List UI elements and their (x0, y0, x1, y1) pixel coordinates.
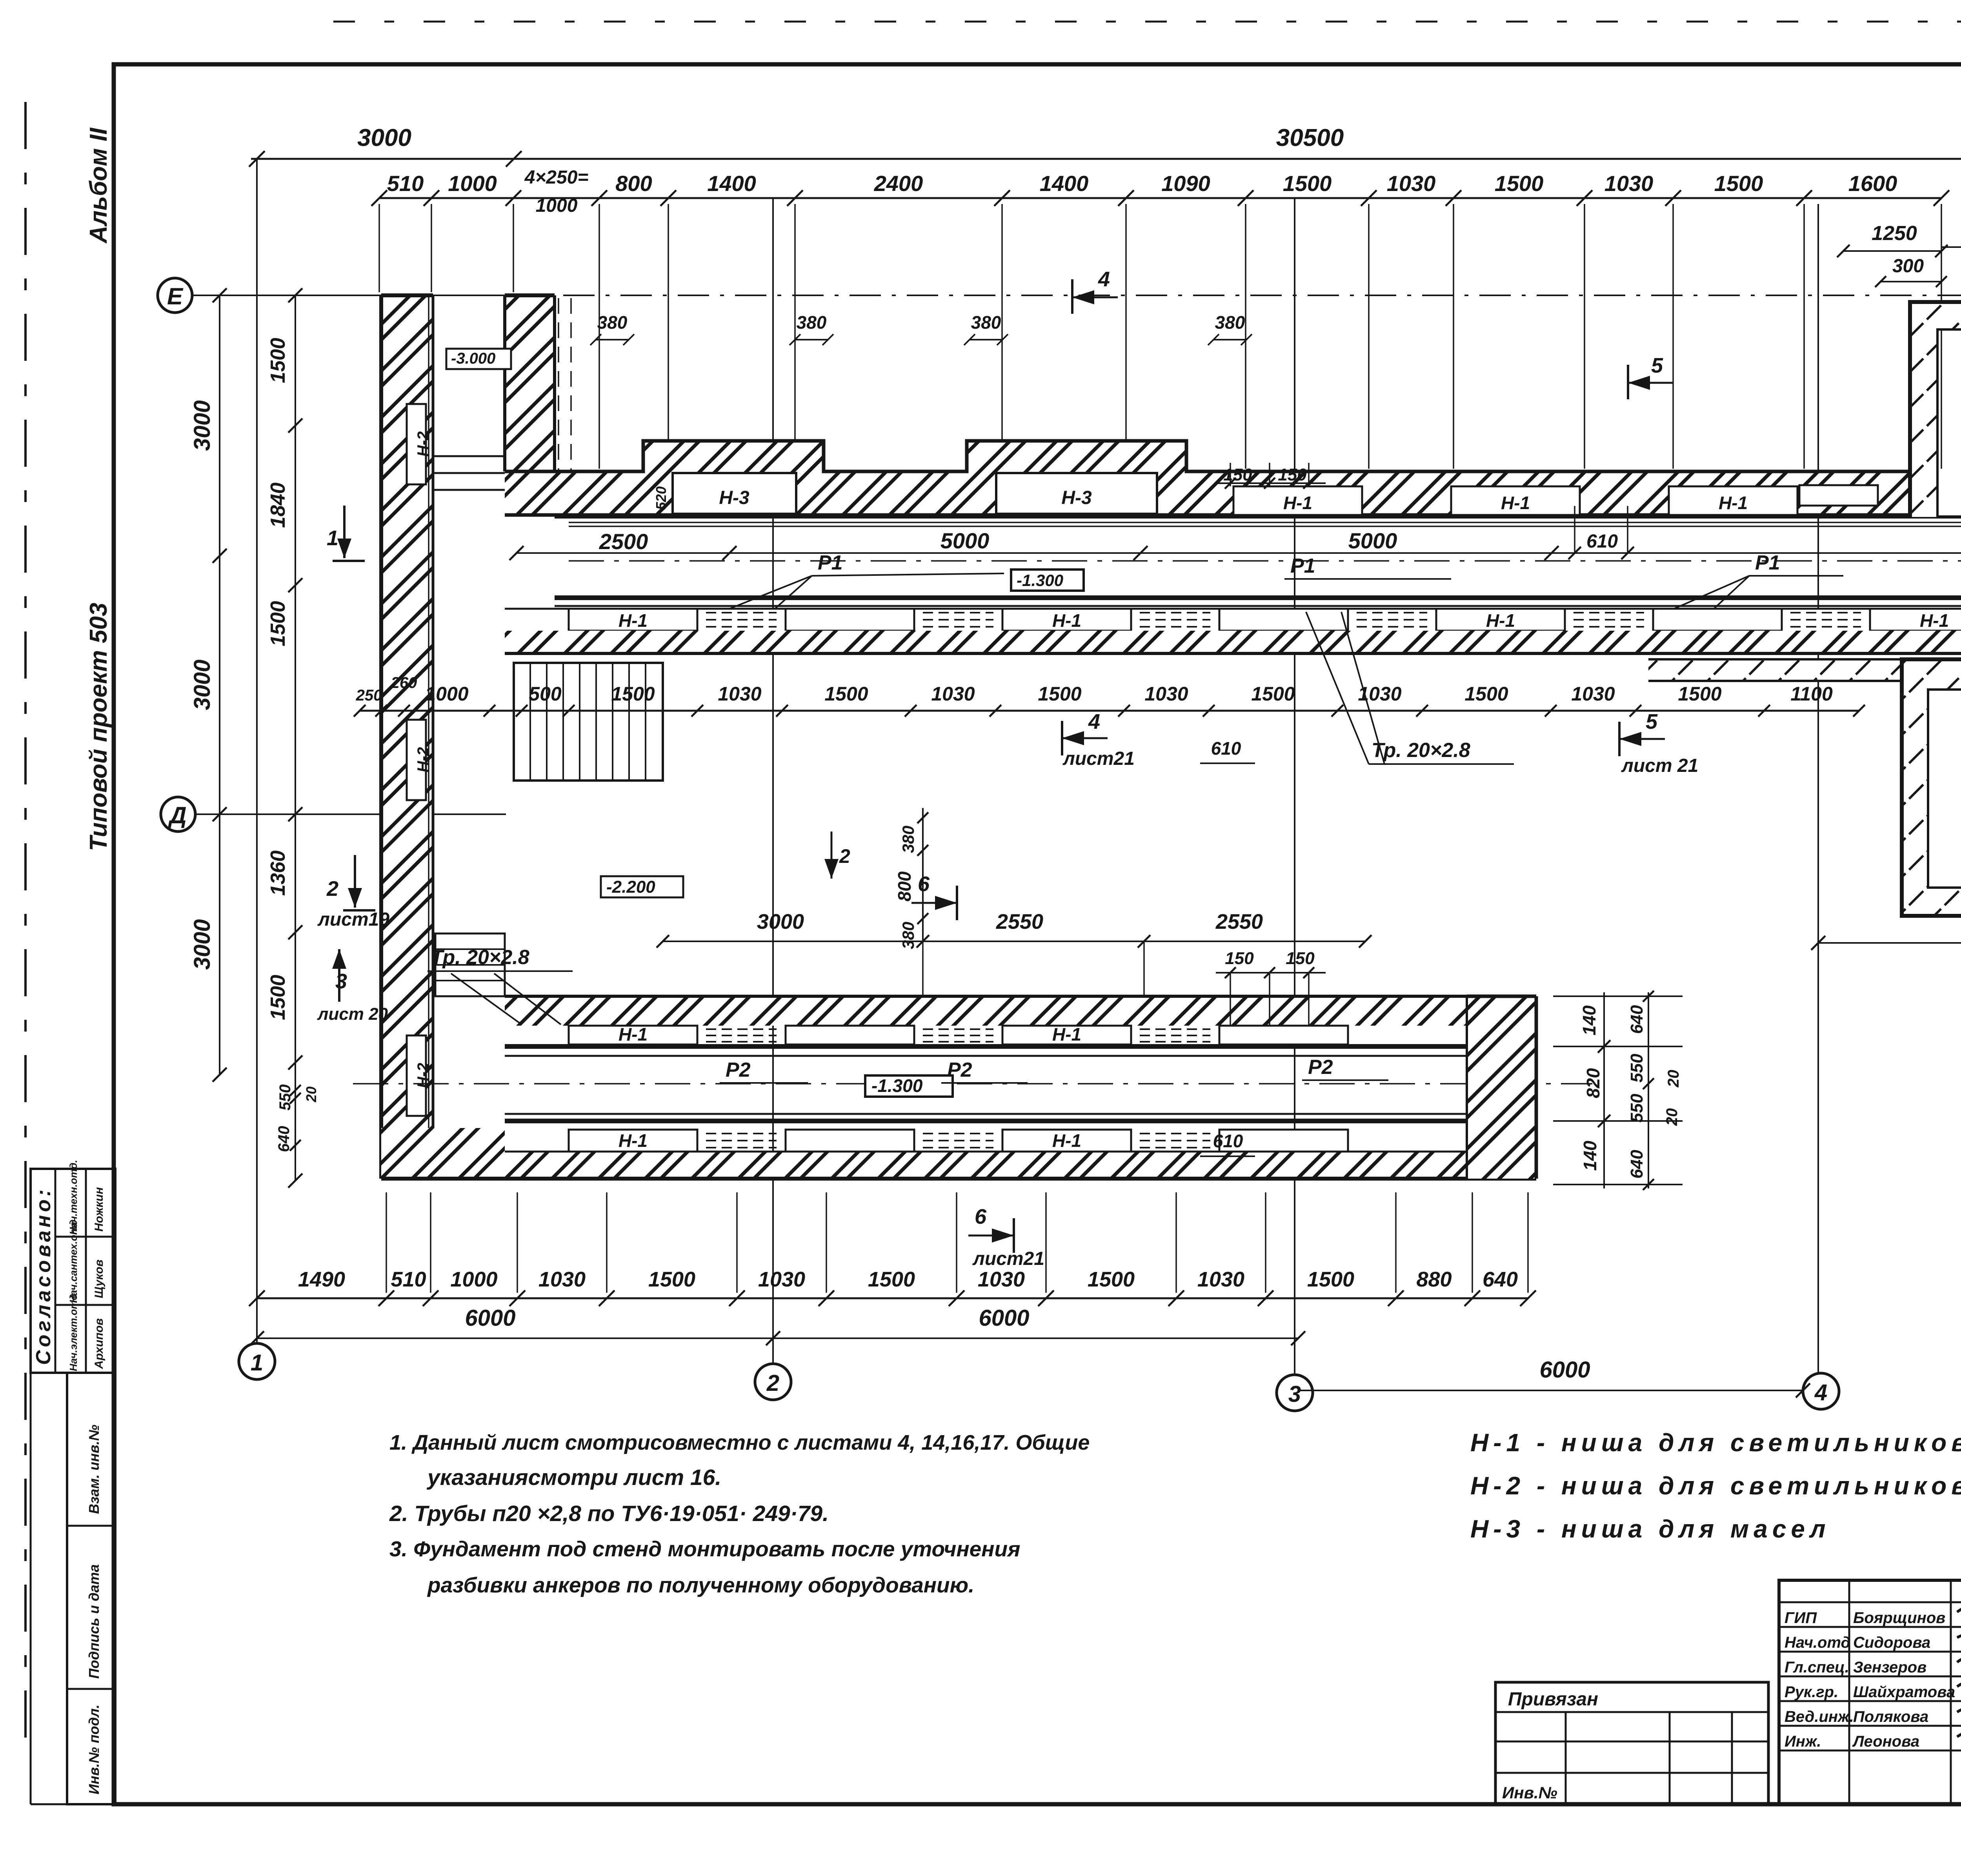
bottom 6000 chain (257, 1337, 1298, 1339)
outer left chain 3000s (219, 295, 220, 1075)
svg-text:1500: 1500 (1678, 683, 1721, 705)
corridor ladder (433, 455, 505, 457)
svg-text:30500: 30500 (1276, 124, 1344, 151)
svg-text:380: 380 (899, 826, 917, 853)
svg-text:3. Фундамент под стенд м: 3. Фундамент под стенд монтировать после… (389, 1537, 1020, 1561)
svg-text:2500: 2500 (599, 529, 648, 554)
left margin dashed line (24, 102, 27, 1749)
svg-text:Н-2: Н-2 (415, 431, 432, 457)
svg-text:4: 4 (1098, 267, 1110, 291)
svg-text:5000: 5000 (940, 528, 990, 553)
top chain segments (379, 197, 1941, 199)
privyazan block (1495, 1682, 1768, 1804)
svg-text:380: 380 (971, 312, 1001, 333)
svg-text:150: 150 (1223, 465, 1252, 484)
610 sub-dim (1568, 547, 1581, 559)
niche row on band2 (505, 609, 1961, 631)
top chain 3000 / 30500 (251, 158, 1961, 160)
svg-text:1500: 1500 (824, 683, 868, 705)
svg-text:Инж.: Инж. (1785, 1733, 1821, 1750)
svg-text:380: 380 (797, 312, 827, 333)
svg-text:ГИП: ГИП (1785, 1609, 1817, 1627)
svg-text:1500: 1500 (648, 1268, 695, 1291)
svg-text:1500: 1500 (1307, 1268, 1354, 1291)
svg-text:1500: 1500 (1495, 171, 1544, 196)
svg-text:140: 140 (1579, 1005, 1599, 1035)
svg-text:1500: 1500 (267, 338, 289, 383)
svg-text:550: 550 (1627, 1094, 1646, 1123)
svg-text:640: 640 (275, 1126, 293, 1152)
svg-text:150: 150 (1225, 949, 1254, 968)
svg-text:-1.300: -1.300 (871, 1075, 923, 1096)
band2 hatch (505, 631, 1961, 653)
svg-text:1840: 1840 (267, 482, 289, 528)
svg-text:1. Данный лист смотрисовмест: 1. Данный лист смотрисовместно с листами… (389, 1431, 1090, 1454)
svg-text:5: 5 (1646, 710, 1658, 733)
svg-text:Нач.сантех.отд: Нач.сантех.отд (67, 1219, 79, 1303)
svg-text:640: 640 (1627, 1150, 1646, 1179)
svg-text:1030: 1030 (1571, 683, 1615, 705)
svg-text:2: 2 (766, 1370, 779, 1396)
svg-text:Д: Д (167, 802, 186, 828)
level box -1.300 lower (865, 1075, 953, 1097)
svg-text:Привязан: Привязан (1508, 1689, 1598, 1710)
svg-text:Н-3: Н-3 (719, 488, 749, 508)
south wall band (381, 1152, 1536, 1179)
svg-text:Вед.инж.: Вед.инж. (1785, 1708, 1854, 1725)
svg-text:Н-1: Н-1 (1920, 610, 1949, 631)
svg-text:380: 380 (899, 922, 917, 949)
svg-text:Н-1: Н-1 (618, 1130, 648, 1151)
svg-text:1030: 1030 (1144, 683, 1188, 705)
svg-text:Шайхратова: Шайхратова (1853, 1683, 1955, 1701)
svg-text:640: 640 (1627, 1005, 1646, 1034)
svg-text:1030: 1030 (1197, 1268, 1244, 1291)
svg-text:150: 150 (1278, 465, 1307, 484)
svg-text:380: 380 (1215, 312, 1245, 333)
svg-text:Н-1: Н-1 (1052, 1130, 1081, 1151)
svg-text:3000: 3000 (757, 910, 804, 933)
svg-text:Н-1: Н-1 (1486, 610, 1515, 631)
pit 1 foundation (brake stand) (1910, 302, 1961, 329)
sidebar lower table (67, 1373, 115, 1804)
6000 between 4 and 5 (1818, 942, 1961, 944)
svg-text:Н-1: Н-1 (1052, 610, 1081, 631)
svg-text:1400: 1400 (707, 171, 756, 196)
svg-text:500: 500 (529, 683, 562, 705)
section mark 6 lower (1013, 1218, 1015, 1253)
svg-text:20: 20 (1665, 1070, 1682, 1088)
axis Д (161, 797, 195, 832)
svg-text:Взам. инв.№: Взам. инв.№ (86, 1425, 102, 1514)
niche row south (569, 1130, 697, 1152)
svg-text:Полякова: Полякова (1853, 1708, 1928, 1725)
svg-text:Подпись и дата: Подпись и дата (86, 1564, 102, 1679)
svg-text:1500: 1500 (1251, 683, 1295, 705)
svg-text:P1: P1 (1290, 555, 1315, 577)
section mark 5 mid (1618, 722, 1621, 756)
west wall hatched (381, 295, 433, 1179)
svg-text:Архипов: Архипов (93, 1318, 106, 1369)
svg-text:лист19: лист19 (317, 909, 389, 930)
svg-text:260: 260 (391, 674, 417, 691)
svg-text:610: 610 (1586, 531, 1618, 552)
svg-text:Нач.элект.отд: Нач.элект.отд (67, 1294, 79, 1371)
svg-text:Рук.гр.: Рук.гр. (1785, 1683, 1838, 1701)
svg-text:Н-1: Н-1 (1719, 493, 1748, 513)
svg-text:1500: 1500 (1088, 1268, 1135, 1291)
svg-text:6000: 6000 (465, 1305, 515, 1331)
svg-text:-2.200: -2.200 (606, 877, 655, 897)
svg-text:4×250=: 4×250= (524, 167, 589, 188)
svg-text:1030: 1030 (538, 1268, 586, 1291)
svg-text:Гл.спец.: Гл.спец. (1785, 1659, 1849, 1676)
wall inner face line (428, 295, 429, 1130)
H-1 niche boxes on band1 (1233, 486, 1362, 515)
svg-text:2. Трубы п20 ×2,8 по ТУ6: 2. Трубы п20 ×2,8 по ТУ6·19·051· 249·79. (389, 1501, 829, 1526)
svg-text:820: 820 (1583, 1068, 1603, 1098)
corridor level box -3.000 (446, 349, 511, 369)
svg-text:20: 20 (303, 1086, 319, 1103)
svg-text:2: 2 (326, 877, 338, 901)
svg-text:Н-1: Н-1 (1501, 493, 1530, 513)
niche dim chain below band2 (360, 710, 1859, 712)
lower trench south rail (505, 1113, 1467, 1115)
6000 between 3 and 4 (1298, 1390, 1803, 1391)
svg-text:1000: 1000 (425, 683, 468, 705)
mid chain 3000 2550 2550 (663, 941, 1365, 942)
signature table (1779, 1580, 1961, 1804)
svg-text:3000: 3000 (189, 659, 215, 710)
pipe dashes between niches (706, 612, 777, 613)
svg-text:2550: 2550 (1215, 910, 1263, 933)
svg-text:лист 20: лист 20 (317, 1004, 388, 1024)
svg-text:лист 21: лист 21 (1621, 755, 1698, 776)
svg-text:1500: 1500 (1464, 683, 1508, 705)
section mark 4 top (1071, 279, 1073, 314)
svg-text:лист21: лист21 (972, 1248, 1044, 1269)
svg-text:140: 140 (1580, 1141, 1600, 1171)
svg-text:1: 1 (251, 1350, 263, 1376)
svg-text:P2: P2 (726, 1059, 751, 1081)
svg-text:Н-2: Н-2 (415, 747, 432, 772)
svg-text:1030: 1030 (1604, 171, 1654, 196)
lower trench centre dash-dot (353, 1083, 1592, 1084)
svg-text:510: 510 (387, 171, 424, 196)
svg-text:1500: 1500 (611, 683, 655, 705)
svg-text:Типовой проект 503: Типовой проект 503 (85, 603, 112, 851)
svg-text:3000: 3000 (357, 124, 411, 151)
svg-text:6: 6 (918, 872, 930, 896)
svg-text:P1: P1 (1755, 551, 1780, 574)
svg-text:лист21: лист21 (1062, 748, 1135, 769)
svg-text:2: 2 (839, 845, 850, 867)
svg-text:300: 300 (1892, 256, 1924, 277)
svg-text:Зензеров: Зензеров (1853, 1659, 1926, 1676)
bottom chain (257, 1297, 1528, 1299)
svg-text:4: 4 (1814, 1380, 1827, 1405)
svg-text:разбивки анкеров по полу: разбивки анкеров по полученному оборудов… (427, 1573, 974, 1597)
lower trench right dim stack (1603, 992, 1605, 1188)
svg-text:Н-1: Н-1 (618, 1024, 648, 1044)
shoulder strips at pit2 top level (1648, 659, 1902, 681)
axis E (158, 278, 192, 313)
svg-text:-1.300: -1.300 (1017, 571, 1063, 590)
svg-text:1500: 1500 (267, 975, 289, 1020)
svg-text:2400: 2400 (874, 171, 923, 196)
lower trench north band (band3) (505, 996, 1467, 1026)
svg-text:1600: 1600 (1848, 171, 1897, 196)
380 sub-dims (596, 339, 629, 340)
niche notch left of pit1 (1799, 485, 1878, 506)
svg-text:Н-1: Н-1 (1283, 493, 1312, 513)
top dashed sheet edge (333, 21, 1961, 23)
arrow 2 at stairs (831, 832, 833, 879)
svg-text:P1: P1 (818, 551, 843, 574)
pit sub-dims 1250 300 2500 300 (1843, 250, 1941, 252)
trench end wall (1467, 996, 1536, 1179)
svg-text:4: 4 (1088, 710, 1100, 733)
stairs to upper trench (514, 663, 663, 781)
svg-text:Тр. 20×2.8: Тр. 20×2.8 (431, 946, 529, 969)
svg-text:1090: 1090 (1161, 171, 1210, 196)
level box -2.200 (601, 876, 683, 897)
svg-text:880: 880 (1416, 1268, 1452, 1291)
svg-text:250: 250 (356, 687, 382, 704)
svg-text:550: 550 (1627, 1054, 1646, 1083)
band3 rail (505, 1044, 1467, 1049)
svg-text:1: 1 (327, 526, 338, 550)
svg-text:Леонова: Леонова (1852, 1733, 1919, 1750)
svg-text:800: 800 (615, 171, 652, 196)
svg-text:Н-3 - ниша для масел: Н-3 - ниша для масел (1470, 1515, 1830, 1543)
svg-text:1000: 1000 (450, 1268, 497, 1291)
svg-text:150: 150 (1286, 949, 1315, 968)
svg-text:640: 640 (1483, 1268, 1518, 1291)
svg-text:1030: 1030 (1387, 171, 1436, 196)
svg-text:610: 610 (1213, 1131, 1243, 1151)
svg-text:указаниясмотри лист 16.: указаниясмотри лист 16. (426, 1465, 721, 1490)
svg-text:520: 520 (653, 486, 669, 510)
svg-text:-3.000: -3.000 (451, 350, 495, 367)
svg-text:2550: 2550 (996, 910, 1043, 933)
svg-text:1030: 1030 (978, 1268, 1025, 1291)
svg-text:1030: 1030 (718, 683, 761, 705)
svg-text:1000: 1000 (536, 195, 578, 216)
svg-text:Е: Е (167, 283, 184, 309)
axis 3 (1294, 198, 1295, 1375)
svg-text:1400: 1400 (1040, 171, 1089, 196)
svg-text:Инв.№ подл.: Инв.№ подл. (86, 1705, 102, 1794)
svg-text:3: 3 (1288, 1381, 1301, 1407)
svg-text:Н-2 - ниша для светиль: Н-2 - ниша для светильников (1470, 1472, 1961, 1500)
svg-text:P2: P2 (1308, 1056, 1333, 1079)
svg-text:6000: 6000 (979, 1305, 1029, 1331)
upper trench north band (band1) (505, 471, 1910, 515)
H-2 niches in west wall (407, 404, 426, 484)
trench dim line 2500/5000/5000 (517, 552, 1961, 554)
svg-text:1030: 1030 (931, 683, 975, 705)
svg-text:1000: 1000 (448, 171, 497, 196)
svg-text:1500: 1500 (1038, 683, 1081, 705)
svg-text:Н-1: Н-1 (1052, 1024, 1081, 1044)
svg-text:Нач.отд: Нач.отд (1785, 1634, 1850, 1651)
svg-text:Тр. 20×2.8: Тр. 20×2.8 (1372, 739, 1470, 762)
380/800/380 vertical dims at stairs (922, 808, 924, 941)
small 550/20/640 left dims (290, 1085, 301, 1096)
svg-text:610: 610 (1211, 738, 1241, 759)
svg-text:3: 3 (335, 970, 347, 993)
H-3 niche boxes (673, 473, 796, 514)
pit 2 foundation (1902, 659, 1961, 690)
svg-text:1030: 1030 (758, 1268, 805, 1291)
svg-text:6000: 6000 (1539, 1357, 1590, 1383)
corridor vertical dashed pipes (558, 298, 559, 514)
svg-text:1250: 1250 (1872, 222, 1917, 245)
trench centre dash-dot (569, 560, 1961, 562)
svg-text:510: 510 (391, 1268, 426, 1291)
stairs to lower trench (435, 933, 505, 996)
svg-text:Щуков: Щуков (93, 1259, 106, 1298)
extension lines below top chain (598, 204, 600, 469)
level box -1.300 upper (1011, 570, 1084, 591)
inner left chain (295, 295, 296, 1181)
svg-text:3000: 3000 (189, 400, 215, 451)
svg-text:800: 800 (894, 871, 915, 901)
axis 1 (256, 159, 258, 1344)
svg-text:Н-1: Н-1 (618, 610, 648, 631)
svg-text:Согласовано:: Согласовано: (32, 1186, 55, 1365)
axis 4 (1817, 204, 1819, 1373)
axis 2 (772, 198, 774, 1364)
upper trench edge lines (555, 515, 1961, 519)
north strip wall (505, 295, 555, 471)
svg-text:Альбом II: Альбом II (85, 127, 112, 244)
svg-text:5: 5 (1651, 354, 1663, 377)
south rail heavy (555, 595, 1961, 600)
svg-text:1100: 1100 (1790, 683, 1833, 705)
svg-text:380: 380 (597, 312, 628, 333)
svg-text:1360: 1360 (267, 850, 289, 896)
svg-text:Инв.№: Инв.№ (1502, 1783, 1557, 1802)
svg-text:Ножкин: Ножкин (93, 1187, 106, 1232)
sidebar approval table (31, 1169, 115, 1373)
section mark 5 top (1627, 365, 1629, 399)
svg-text:6: 6 (975, 1205, 987, 1228)
svg-text:1490: 1490 (298, 1268, 345, 1291)
svg-text:1500: 1500 (267, 601, 289, 646)
svg-text:1500: 1500 (1714, 171, 1763, 196)
svg-text:1500: 1500 (1283, 171, 1332, 196)
section mark 6 upper (956, 886, 958, 920)
svg-text:550: 550 (277, 1084, 294, 1111)
svg-text:Боярщинов: Боярщинов (1853, 1609, 1945, 1627)
svg-text:P2: P2 (947, 1059, 972, 1081)
svg-text:1500: 1500 (868, 1268, 915, 1291)
section mark 4 mid (1061, 721, 1063, 755)
svg-text:3000: 3000 (189, 919, 215, 970)
svg-text:Н-3: Н-3 (1061, 488, 1092, 508)
svg-text:20: 20 (1663, 1108, 1681, 1126)
svg-text:Н-1 - ниша для светиль: Н-1 - ниша для светильников (1470, 1428, 1961, 1457)
svg-text:Сидорова: Сидорова (1853, 1634, 1930, 1651)
svg-text:5000: 5000 (1348, 528, 1397, 553)
